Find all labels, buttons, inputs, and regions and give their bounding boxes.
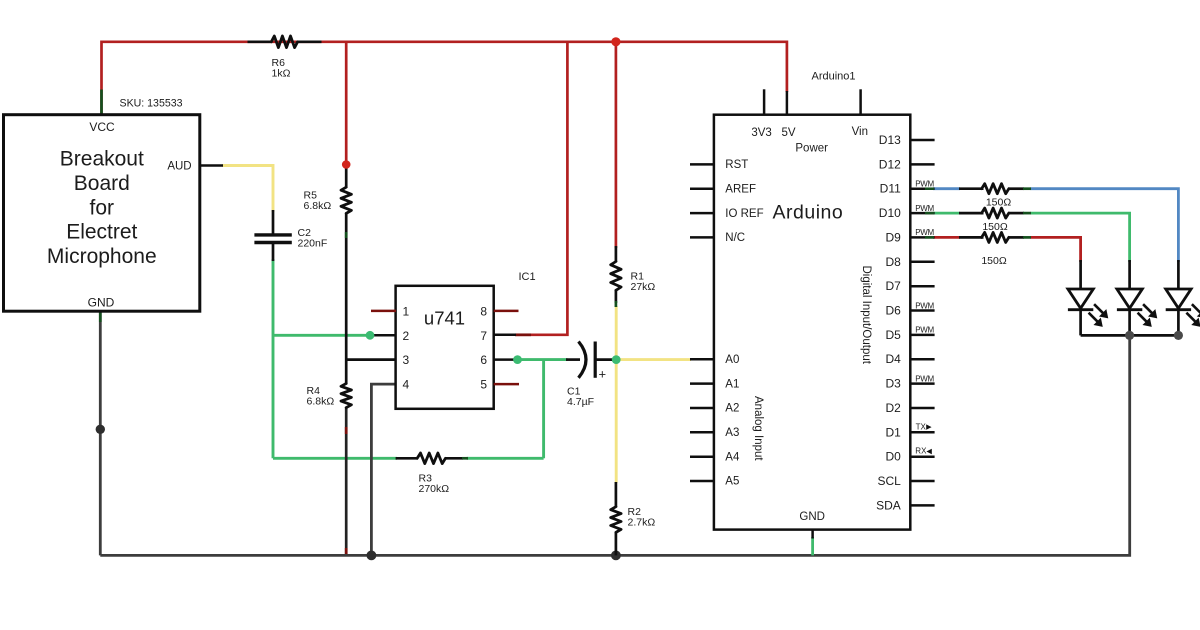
- svg-text:SCL: SCL: [877, 474, 901, 488]
- resistor R2: [615, 482, 618, 507]
- wire VCC top rail red: [102, 42, 787, 115]
- svg-text:Digital Input/Output: Digital Input/Output: [860, 266, 872, 365]
- svg-text:5V: 5V: [781, 127, 795, 139]
- wire green loop bottom through R3: [273, 457, 397, 460]
- svg-text:SKU: 135533: SKU: 135533: [120, 98, 183, 110]
- svg-text:PWM: PWM: [915, 326, 934, 335]
- wire red D9: [933, 236, 960, 239]
- pin stub D3: [910, 382, 934, 385]
- wire green to op-amp pin2: [273, 334, 370, 337]
- svg-text:PWM: PWM: [915, 301, 934, 310]
- svg-text:SDA: SDA: [876, 498, 901, 512]
- pin 7 stub: [494, 334, 516, 337]
- pin stub IO REF: [690, 212, 714, 215]
- svg-text:GND: GND: [799, 511, 825, 523]
- svg-text:IC1: IC1: [519, 271, 536, 283]
- pin stub A3: [690, 431, 714, 434]
- resistor R7 150ohm: [959, 187, 984, 190]
- svg-text:PWM: PWM: [915, 204, 934, 213]
- node dot gnd wire joint: [96, 425, 105, 434]
- node dot pin2: [366, 331, 375, 340]
- svg-text:A5: A5: [725, 476, 739, 488]
- capacitor C2: [272, 210, 275, 235]
- pin stub 3V3: [763, 89, 766, 114]
- svg-text:Vin: Vin: [852, 126, 868, 138]
- wire red branch to R5: [345, 42, 348, 165]
- svg-text:A0: A0: [725, 354, 739, 366]
- Arduino1 module: [714, 115, 910, 530]
- wire green C2 to feedback loop: [272, 259, 275, 458]
- svg-text:PWM: PWM: [915, 374, 934, 383]
- wire red drop to R1: [615, 42, 618, 248]
- pin stub D7: [910, 285, 934, 288]
- pin stub SCL: [910, 480, 934, 483]
- pin 1 stub: [371, 310, 396, 313]
- resistor R9 150ohm: [959, 236, 984, 239]
- svg-text:D9: D9: [885, 230, 901, 244]
- svg-text:270kΩ: 270kΩ: [419, 483, 450, 495]
- svg-text:Analog Input: Analog Input: [752, 396, 764, 461]
- pin stub D10: [910, 212, 934, 215]
- svg-text:3: 3: [403, 353, 410, 367]
- svg-text:6.8kΩ: 6.8kΩ: [307, 396, 335, 408]
- wire green loop riser to pin6 net: [542, 360, 545, 459]
- svg-text:AUD: AUD: [167, 161, 191, 173]
- pin stub D9: [910, 236, 934, 239]
- svg-text:for: for: [90, 196, 115, 219]
- svg-text:PWM: PWM: [915, 228, 934, 237]
- svg-text:+: +: [599, 367, 607, 382]
- LED2: [1128, 260, 1131, 290]
- svg-text:150Ω: 150Ω: [986, 197, 1012, 209]
- wire GND breakout down: [99, 311, 102, 555]
- svg-text:1kΩ: 1kΩ: [272, 67, 291, 79]
- wire yellow to A0: [616, 358, 691, 361]
- wire Arduino GND green: [811, 537, 814, 555]
- pin stub A5: [690, 480, 714, 483]
- node dot pin6: [513, 355, 522, 364]
- pin stub D1: [910, 431, 934, 434]
- wire black R5 R4 column: [345, 165, 348, 188]
- svg-text:D0: D0: [885, 450, 901, 464]
- pin stub D4: [910, 358, 934, 361]
- svg-text:D4: D4: [885, 352, 901, 366]
- ground rail bottom: [100, 335, 1129, 555]
- wire LED cathode rail: [1081, 334, 1179, 337]
- svg-text:A2: A2: [725, 403, 739, 415]
- pin stub N/C: [690, 236, 714, 239]
- svg-text:2: 2: [403, 329, 410, 343]
- svg-text:D5: D5: [885, 328, 901, 342]
- svg-text:PWM: PWM: [915, 180, 934, 189]
- svg-text:6.8kΩ: 6.8kΩ: [304, 200, 332, 212]
- svg-text:RX: RX: [915, 447, 927, 456]
- pin stub 5V: [786, 91, 789, 115]
- svg-text:3V3: 3V3: [751, 127, 771, 139]
- svg-text:4: 4: [403, 378, 410, 392]
- svg-text:6: 6: [480, 353, 487, 367]
- capacitor C1 polarized: [566, 358, 580, 361]
- wire red op-amp pin7 to rail: [515, 42, 567, 335]
- svg-text:220nF: 220nF: [298, 238, 328, 250]
- svg-text:IO REF: IO REF: [725, 208, 763, 220]
- node dot C1 output: [612, 355, 621, 364]
- pin stub A2: [690, 407, 714, 410]
- node dot LED rail mid: [1125, 331, 1134, 340]
- pin stub AREF: [690, 187, 714, 190]
- pin stub RST: [690, 163, 714, 166]
- wire R4 bottom to ground rail: [345, 408, 348, 556]
- svg-text:A3: A3: [725, 427, 739, 439]
- svg-text:Microphone: Microphone: [47, 245, 157, 268]
- svg-text:Breakout: Breakout: [60, 148, 144, 171]
- wire green op-amp pin6 to C1: [518, 358, 568, 361]
- wire yellow C1 node vertical: [615, 306, 618, 483]
- svg-text:u741: u741: [424, 308, 465, 329]
- pin stub D13: [910, 139, 934, 142]
- svg-text:VCC: VCC: [89, 120, 115, 134]
- node dot R5 top: [342, 160, 351, 169]
- resistor R8 150ohm: [959, 212, 984, 215]
- svg-text:4.7µF: 4.7µF: [567, 396, 594, 408]
- LED1: [1079, 260, 1082, 290]
- svg-text:D7: D7: [885, 279, 901, 293]
- node dot rail R2: [611, 551, 621, 561]
- pin 6 stub: [494, 358, 518, 361]
- wire green D10: [933, 212, 960, 215]
- resistor R4: [341, 384, 351, 408]
- svg-text:D3: D3: [885, 377, 901, 391]
- pin stub A0: [690, 358, 714, 361]
- svg-text:GND: GND: [88, 295, 115, 309]
- pin stub A4: [690, 455, 714, 458]
- pin stub D12: [910, 163, 934, 166]
- wire AUD yellow: [222, 166, 273, 213]
- svg-text:150Ω: 150Ω: [982, 221, 1008, 233]
- pin stub D5: [910, 334, 934, 337]
- op-amp IC1 u741: [396, 286, 494, 409]
- svg-text:8: 8: [480, 305, 487, 319]
- pin stub D0: [910, 455, 934, 458]
- pin stub A1: [690, 382, 714, 385]
- node dot rail pin4: [367, 551, 377, 561]
- svg-text:AREF: AREF: [725, 183, 756, 195]
- node dot top rail: [611, 37, 620, 46]
- pin stub D2: [910, 407, 934, 410]
- svg-text:D10: D10: [879, 206, 901, 220]
- svg-text:1: 1: [403, 305, 410, 319]
- svg-text:27kΩ: 27kΩ: [631, 281, 656, 293]
- wire op-amp pin3 left: [346, 358, 396, 361]
- pin stub VCC dark: [100, 90, 103, 115]
- svg-text:5: 5: [480, 378, 487, 392]
- svg-text:RST: RST: [725, 159, 748, 171]
- pin stub D8: [910, 261, 934, 264]
- svg-text:Arduino1: Arduino1: [812, 71, 856, 83]
- svg-text:D13: D13: [879, 133, 901, 147]
- resistor R6: [248, 40, 273, 43]
- pin stub D11: [910, 187, 934, 190]
- svg-text:D11: D11: [880, 182, 901, 196]
- svg-text:2.7kΩ: 2.7kΩ: [628, 517, 656, 529]
- resistor R3: [396, 457, 418, 460]
- svg-text:150Ω: 150Ω: [981, 255, 1007, 267]
- svg-text:A1: A1: [725, 378, 739, 390]
- pin 5 stub: [494, 383, 519, 386]
- svg-text:A4: A4: [725, 451, 740, 463]
- pin 8 stub: [494, 310, 519, 313]
- pin stub AUD: [200, 164, 223, 167]
- svg-text:D6: D6: [885, 304, 901, 318]
- pin stub SDA: [910, 504, 934, 507]
- svg-text:Electret: Electret: [66, 221, 137, 244]
- svg-text:D2: D2: [885, 401, 901, 415]
- pin stub Vin: [859, 89, 862, 114]
- svg-text:D1: D1: [885, 425, 901, 439]
- resistor R1: [615, 246, 618, 262]
- svg-text:D8: D8: [885, 255, 901, 269]
- pin 2 stub: [370, 334, 396, 337]
- wire gray op-amp pin4 down: [371, 384, 396, 555]
- pin stub D6: [910, 309, 934, 312]
- LED3: [1177, 260, 1180, 290]
- breakout board module: [4, 115, 200, 312]
- svg-text:N/C: N/C: [725, 232, 745, 244]
- resistor R5: [341, 187, 351, 213]
- svg-text:Power: Power: [795, 143, 828, 155]
- node dot LED rail end: [1174, 331, 1183, 340]
- wire blue D11: [933, 187, 960, 190]
- svg-text:7: 7: [480, 329, 487, 343]
- svg-text:Board: Board: [74, 172, 130, 195]
- svg-text:TX: TX: [916, 422, 927, 431]
- svg-text:D12: D12: [879, 157, 901, 171]
- svg-text:Arduino: Arduino: [773, 201, 844, 223]
